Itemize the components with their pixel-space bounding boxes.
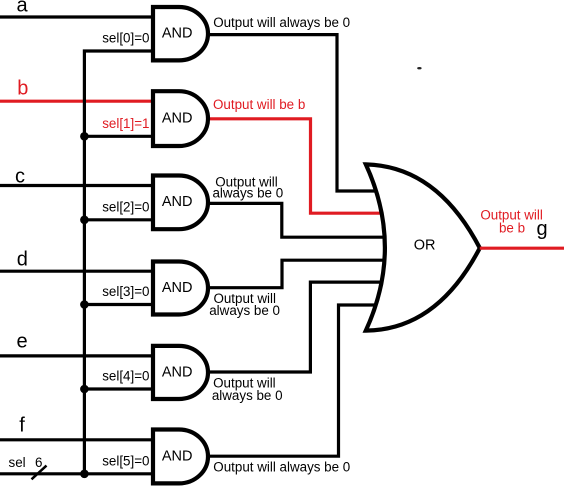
wire sel bus [0, 472, 153, 475]
wire input f [0, 438, 153, 441]
wire input e [0, 354, 153, 357]
svg-text:AND: AND [162, 194, 193, 210]
svg-text:sel[5]=0: sel[5]=0 [102, 453, 149, 468]
OR gate [366, 164, 480, 330]
wire sel[3] branch [84, 303, 153, 306]
wire input c [0, 184, 153, 187]
svg-text:Output will always be 0: Output will always be 0 [213, 459, 350, 474]
svg-text:sel[3]=0: sel[3]=0 [102, 284, 149, 299]
bus width slash [32, 466, 47, 480]
svg-text:always be 0: always be 0 [212, 388, 283, 403]
wire sel[4] branch [84, 387, 153, 390]
wire OR output g (red) [480, 247, 564, 250]
svg-text:b: b [17, 78, 28, 100]
wire AND1 output to OR [206, 35, 378, 191]
wire sel vertical trunk [84, 51, 153, 474]
wire AND3 output to OR [206, 203, 386, 237]
junction sel[3] [80, 300, 89, 309]
junction sel[4] [80, 385, 89, 394]
svg-text:AND: AND [162, 364, 193, 380]
svg-text:sel: sel [9, 455, 26, 470]
svg-text:d: d [17, 249, 28, 271]
wire AND4 output to OR [206, 260, 386, 288]
wire AND2 output to OR [206, 119, 383, 213]
svg-text:always be 0: always be 0 [209, 303, 280, 318]
svg-text:sel[2]=0: sel[2]=0 [102, 199, 149, 214]
AND gate 6 [153, 430, 208, 484]
wire AND5 output to OR [206, 282, 383, 372]
wire AND6 output to OR [206, 305, 378, 456]
svg-text:e: e [16, 331, 27, 353]
AND gate 3 [153, 176, 208, 230]
svg-text:g: g [536, 218, 547, 240]
svg-text:OR: OR [414, 238, 436, 254]
AND gate 1 [153, 7, 208, 60]
svg-text:6: 6 [35, 455, 42, 470]
AND gate 4 [153, 262, 208, 315]
svg-text:AND: AND [162, 448, 193, 464]
junction sel[1] [80, 132, 89, 141]
wire sel[1] branch [84, 135, 153, 138]
stray mark [417, 67, 421, 69]
junction sel[5] [80, 470, 89, 479]
svg-text:a: a [16, 0, 28, 17]
svg-text:AND: AND [162, 280, 193, 296]
wire input b [0, 100, 153, 103]
wire input d [0, 270, 153, 273]
svg-text:Output will be b: Output will be b [213, 97, 305, 112]
junction sel[2] [80, 216, 89, 225]
AND gate 2 [153, 91, 208, 146]
svg-text:sel[1]=1: sel[1]=1 [102, 116, 149, 131]
AND gate 5 [153, 346, 208, 399]
svg-text:Output will always be 0: Output will always be 0 [213, 15, 350, 30]
svg-text:be b: be b [499, 221, 525, 236]
svg-text:AND: AND [162, 111, 193, 127]
wire input a [0, 15, 153, 18]
svg-text:sel[4]=0: sel[4]=0 [102, 369, 149, 384]
svg-text:always be 0: always be 0 [212, 185, 283, 200]
svg-text:f: f [19, 414, 25, 436]
svg-text:AND: AND [162, 26, 193, 42]
svg-text:sel[0]=0: sel[0]=0 [102, 31, 149, 46]
wire sel[2] branch [84, 218, 153, 221]
